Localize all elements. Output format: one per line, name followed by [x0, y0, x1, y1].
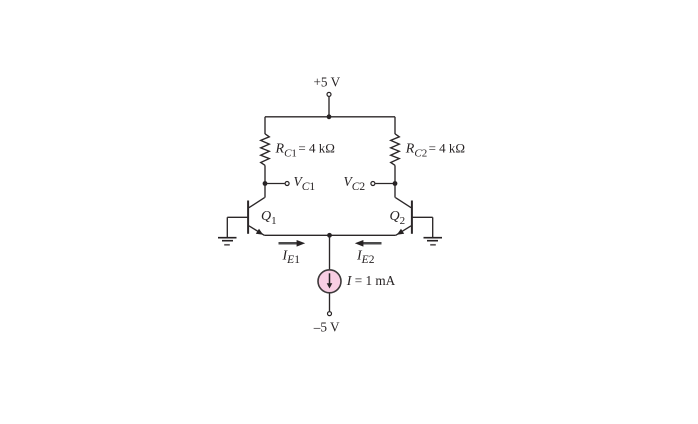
wire: top rail	[265, 116, 395, 118]
wire: Q1 base	[227, 216, 248, 218]
svg-text:–5 V: –5 V	[313, 319, 340, 334]
transistor Q1	[248, 184, 265, 236]
emitter arrowhead	[256, 229, 263, 235]
node: VC1	[263, 181, 268, 186]
svg-text:+5 V: +5 V	[314, 75, 341, 90]
resistor RC2	[391, 134, 400, 166]
collector diagonal	[249, 198, 265, 208]
svg-text:I = 1 mA: I = 1 mA	[346, 273, 396, 289]
IE2 current arrow	[355, 240, 382, 247]
node: VC2	[393, 181, 398, 186]
wire: current source to -5V terminal	[329, 293, 331, 311]
wire: +5V terminal to top rail	[328, 97, 330, 117]
base bar	[411, 201, 413, 234]
current source arrow	[329, 273, 331, 284]
wire: right branch top	[394, 117, 396, 134]
wire: VC2 stub	[376, 183, 396, 185]
ground (left)	[218, 238, 237, 245]
IE1 current arrow	[279, 240, 306, 247]
resistor RC1	[261, 134, 270, 166]
collector diagonal	[395, 198, 411, 208]
wire: rail to current source	[329, 235, 331, 269]
wire: Q2 base	[412, 216, 433, 218]
wire: collector drop	[264, 184, 266, 198]
transistor Q2	[395, 184, 412, 236]
-5V terminal	[328, 312, 332, 316]
wire: VC1 stub	[265, 183, 285, 185]
wire: Q1 base to ground	[226, 217, 228, 237]
VC2 terminal	[371, 182, 375, 186]
svg-text:= 4 kΩ: = 4 kΩ	[429, 141, 466, 156]
emitter diagonal	[396, 226, 411, 236]
node: top rail junction	[327, 114, 332, 119]
wire: emitter rail	[264, 234, 395, 236]
emitter diagonal	[249, 226, 264, 236]
svg-text:= 4 kΩ: = 4 kΩ	[298, 141, 335, 156]
emitter arrowhead	[397, 229, 404, 235]
wire: collector drop	[394, 184, 396, 198]
wire: Q2 base to ground	[432, 217, 434, 237]
current source I	[318, 270, 341, 293]
node: emitter rail junction	[327, 233, 332, 238]
wire: RC2 to VC2 node	[394, 165, 396, 183]
wire: left branch top	[264, 117, 266, 134]
wire: RC1 to VC1 node	[264, 165, 266, 183]
base bar	[247, 201, 249, 234]
+5V terminal	[327, 92, 331, 96]
VC1 terminal	[285, 182, 289, 186]
ground (right)	[424, 238, 443, 245]
